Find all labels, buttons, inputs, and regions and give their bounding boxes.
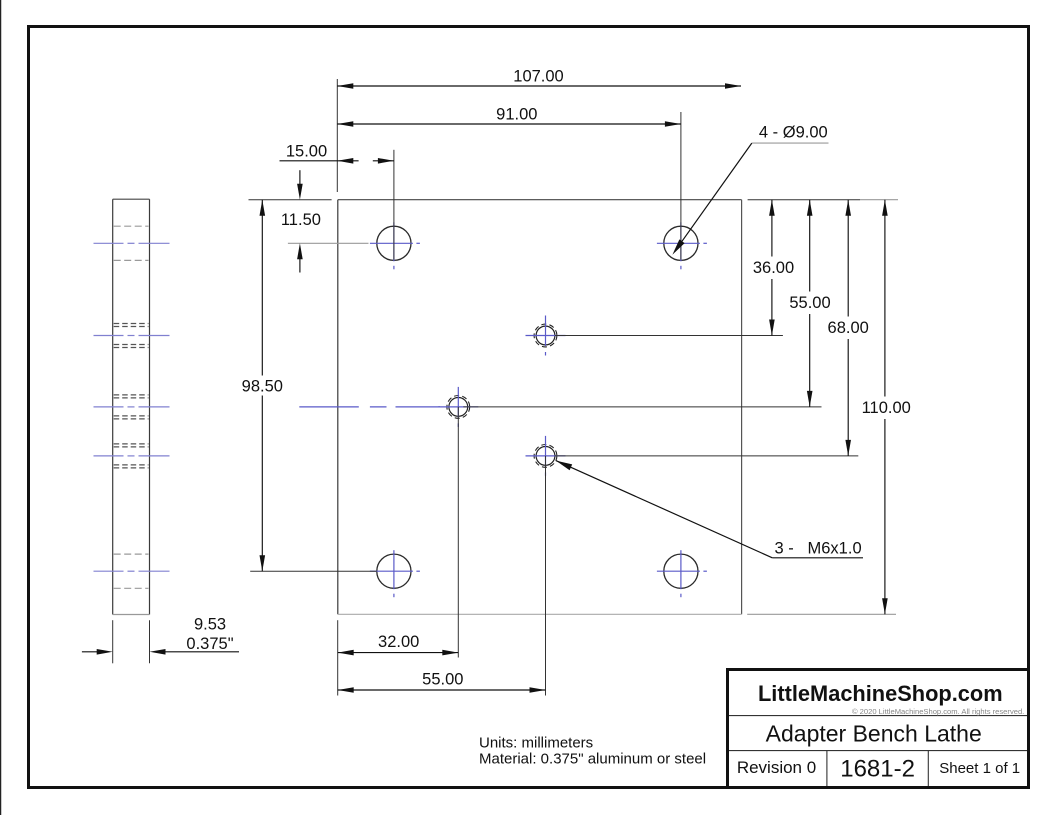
svg-text:107.00: 107.00 xyxy=(513,68,563,86)
svg-text:LittleMachineShop.com: LittleMachineShop.com xyxy=(758,681,1003,706)
svg-text:Material: 0.375" aluminum or s: Material: 0.375" aluminum or steel xyxy=(479,751,706,768)
svg-text:36.00: 36.00 xyxy=(753,259,794,277)
svg-text:© 2020 LittleMachineShop.com.: © 2020 LittleMachineShop.com. All rights… xyxy=(852,707,1024,716)
svg-text:Sheet 1 of 1: Sheet 1 of 1 xyxy=(939,760,1020,777)
svg-text:Revision 0: Revision 0 xyxy=(737,758,816,777)
svg-text:15.00: 15.00 xyxy=(286,142,327,160)
svg-text:32.00: 32.00 xyxy=(378,633,419,651)
svg-text:68.00: 68.00 xyxy=(828,319,869,337)
svg-text:1681-2: 1681-2 xyxy=(840,756,915,783)
svg-text:Units: millimeters: Units: millimeters xyxy=(479,735,593,752)
svg-text:98.50: 98.50 xyxy=(242,377,283,395)
svg-text:55.00: 55.00 xyxy=(789,294,830,312)
svg-text:9.53: 9.53 xyxy=(194,616,226,634)
svg-text:55.00: 55.00 xyxy=(422,671,463,689)
svg-text:110.00: 110.00 xyxy=(862,399,911,417)
svg-text:91.00: 91.00 xyxy=(496,106,537,124)
svg-text:0.375": 0.375" xyxy=(186,635,233,653)
svg-text:11.50: 11.50 xyxy=(281,211,321,229)
svg-text:Adapter Bench Lathe: Adapter Bench Lathe xyxy=(766,720,982,746)
svg-text:4 - Ø9.00: 4 - Ø9.00 xyxy=(759,123,828,141)
svg-text:3 - M6x1.0: 3 - M6x1.0 xyxy=(775,539,862,557)
